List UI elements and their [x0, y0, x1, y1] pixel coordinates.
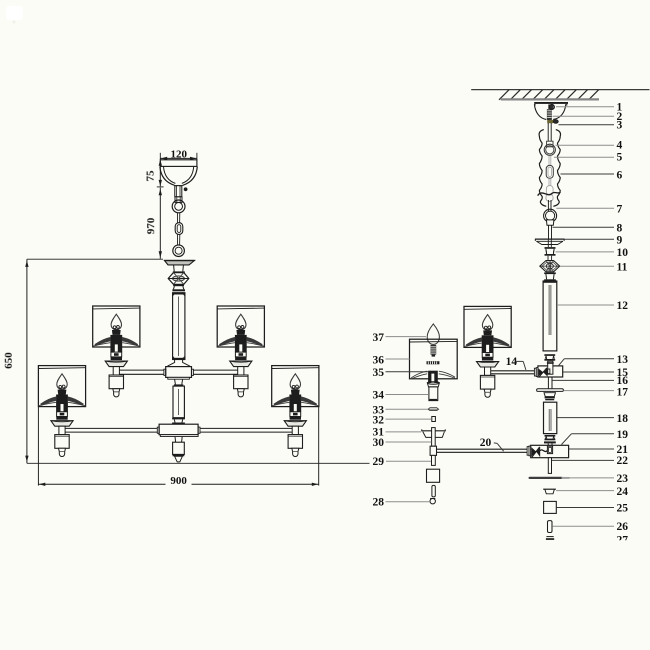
dimension 120 line	[160, 153, 197, 160]
part 10 spool	[545, 247, 556, 256]
label 9 leader	[565, 235, 623, 247]
part 11 diamond ornament	[540, 261, 560, 272]
svg-text:650: 650	[3, 352, 15, 369]
hub 13 center tube	[547, 361, 554, 374]
lower hub right boss	[198, 427, 200, 433]
part 8 hanger rod	[549, 225, 552, 239]
svg-text:23: 23	[617, 473, 629, 485]
svg-text:970: 970	[145, 217, 157, 234]
lower hub	[159, 424, 198, 436]
upper left lamp	[93, 306, 140, 397]
upper tube lower neck	[167, 360, 190, 367]
label 36 leader	[373, 354, 410, 366]
chain bottom ring	[546, 194, 553, 201]
part 20 arm	[437, 449, 531, 452]
svg-text:12: 12	[617, 300, 629, 312]
label 13 leader	[558, 354, 628, 366]
label 22 leader	[552, 455, 629, 467]
rod below spool	[548, 256, 552, 261]
column bobeche	[164, 260, 194, 265]
part 27 cap	[546, 537, 554, 540]
svg-text:20: 20	[480, 437, 492, 449]
label 6 leader	[561, 169, 623, 181]
svg-text:34: 34	[373, 390, 385, 402]
part 18 lower column tube	[544, 402, 557, 433]
label 23 leader	[569, 473, 628, 485]
part 1 mounting bar	[534, 102, 568, 106]
arm 14 end fitting	[534, 368, 537, 377]
chain oval link	[175, 223, 183, 235]
label 34 leader	[373, 390, 429, 402]
part 23 threaded rod	[530, 477, 570, 479]
part 3 hex nut	[547, 120, 558, 123]
label 28 leader	[373, 497, 430, 509]
part 32 bushing	[432, 417, 436, 422]
svg-text:19: 19	[617, 429, 629, 441]
hub 13 screw bowtie	[539, 368, 548, 377]
part 4 upper chain ring	[544, 141, 555, 155]
label 25 leader	[557, 502, 629, 514]
rod through saucer	[548, 239, 551, 247]
part 28 terminal box	[427, 469, 440, 482]
shade 36 holder bar	[427, 361, 440, 364]
part 29 arm rod lower	[432, 455, 436, 465]
lower right arm	[200, 428, 292, 432]
label 33 leader	[373, 405, 429, 417]
part 14 arm	[490, 371, 538, 374]
canopy stem	[175, 186, 182, 197]
part 12 upper column tube	[543, 281, 557, 351]
label 29 text	[370, 456, 387, 468]
label 21 leader	[569, 444, 628, 456]
ceiling top line	[471, 89, 649, 91]
part 34 socket cylinder	[429, 387, 438, 401]
label 20	[480, 437, 504, 451]
finial neck	[175, 437, 182, 443]
label 16 leader	[552, 375, 628, 387]
svg-text:75: 75	[145, 170, 157, 182]
watermark blob	[6, 6, 23, 24]
svg-text:11: 11	[617, 262, 628, 274]
chain connector a	[177, 213, 179, 223]
column collar top	[173, 265, 185, 273]
upper left arm	[119, 370, 164, 374]
dimension 970	[145, 188, 162, 259]
part 5 chain oval link	[546, 156, 553, 178]
sleeve drip cup	[427, 381, 439, 387]
part 26 cylinder	[548, 521, 553, 533]
label 4 leader	[556, 139, 623, 151]
svg-text:900: 900	[170, 475, 187, 487]
collar below tube 18	[545, 435, 556, 440]
svg-text:8: 8	[617, 222, 623, 234]
part 35 candle sleeve	[428, 371, 438, 383]
baseline extension and leader 29 line	[27, 461, 432, 463]
label 17 leader	[564, 386, 629, 398]
dimension 75	[145, 160, 164, 187]
svg-text:14: 14	[506, 356, 518, 368]
shade 36 rim curves	[411, 371, 455, 379]
column diamond finial	[168, 273, 189, 285]
label 3 leader	[559, 120, 623, 132]
label 1 leader	[556, 102, 623, 114]
canopy set screw	[184, 188, 187, 191]
upper right arm	[193, 370, 238, 374]
column lower tube	[173, 386, 184, 418]
part 22 rod	[548, 458, 551, 474]
svg-text:9: 9	[617, 235, 623, 247]
svg-text:7: 7	[617, 204, 623, 216]
chain lower partial link	[546, 178, 553, 195]
hub 19 screw bowtie	[531, 447, 540, 457]
svg-text:24: 24	[617, 486, 629, 498]
canopy bell	[160, 167, 197, 186]
lower left lamp	[38, 366, 85, 457]
dimension 650 line	[3, 259, 29, 463]
label 19 leader	[562, 429, 629, 445]
terminal pin	[432, 485, 435, 497]
ceiling hatching	[499, 90, 599, 100]
label 26 leader	[552, 521, 628, 533]
svg-text:30: 30	[373, 437, 385, 449]
hub 19 center block	[547, 446, 552, 453]
dimension 120 text	[170, 148, 187, 160]
part 31 bobeche	[421, 429, 446, 437]
upper hub left boss	[164, 369, 166, 375]
chain connector b	[177, 234, 179, 245]
svg-text:28: 28	[373, 497, 385, 509]
dimension 900 right extension	[318, 407, 320, 486]
part 19 lower arm hub	[531, 445, 569, 457]
label 15 leader	[563, 367, 628, 379]
cup below disc	[544, 393, 556, 401]
label 37 leader	[373, 332, 427, 344]
column upper tube	[172, 293, 185, 360]
svg-text:22: 22	[617, 455, 629, 467]
svg-text:5: 5	[617, 151, 623, 163]
part 13 arm hub	[538, 366, 563, 377]
part 25 square box	[544, 501, 557, 513]
part 6 decorative chain cover	[539, 130, 560, 207]
part 36 shade	[410, 339, 458, 379]
canopy screw head	[548, 104, 553, 109]
middle lamp assembly	[464, 306, 511, 397]
dimension 900 left extension	[37, 407, 39, 486]
svg-text:16: 16	[617, 375, 629, 387]
label 2 leader	[553, 111, 623, 123]
label 5 leader	[554, 151, 623, 163]
svg-text:36: 36	[373, 354, 385, 366]
hub 19 wire	[540, 450, 547, 452]
svg-text:10: 10	[617, 247, 629, 259]
rod below hub 13	[548, 377, 552, 389]
label 12 leader	[557, 300, 628, 312]
arm 20 end fitting	[527, 446, 531, 456]
ceiling bottom line	[501, 98, 599, 100]
svg-text:13: 13	[617, 354, 629, 366]
svg-text:6: 6	[617, 169, 623, 181]
label 35 leader	[373, 367, 429, 379]
svg-text:32: 32	[373, 414, 385, 426]
label 32 leader	[373, 414, 432, 426]
label 10 leader	[556, 247, 629, 259]
label 31 leader	[373, 427, 422, 439]
lower tube collar	[172, 418, 185, 425]
upper hub	[166, 367, 192, 380]
rod below cover	[548, 200, 551, 211]
ring band below collar	[544, 441, 556, 443]
lower left arm	[65, 428, 157, 432]
label 11 leader	[560, 262, 628, 274]
link below ring 7	[546, 220, 554, 225]
label 18 leader	[557, 413, 628, 425]
svg-text:37: 37	[373, 332, 385, 344]
hanger rod top	[548, 123, 551, 141]
finial body	[173, 442, 185, 456]
label 24 leader	[556, 486, 628, 498]
upper right lamp	[217, 306, 264, 397]
upper hub right boss	[192, 369, 194, 375]
dimension 900 line	[38, 475, 318, 487]
label 27 partial	[617, 534, 629, 546]
arm center rod upper	[432, 428, 436, 447]
svg-text:18: 18	[617, 413, 629, 425]
label 14	[506, 356, 526, 370]
canopy ceiling plate	[160, 160, 197, 167]
canopy dome profile	[534, 104, 565, 119]
stub above lower hub	[548, 443, 552, 445]
terminal ball	[430, 499, 435, 504]
svg-text:35: 35	[373, 367, 385, 379]
dimension 650 extension top	[27, 258, 163, 260]
svg-text:17: 17	[617, 386, 629, 398]
column collar 2	[172, 284, 185, 291]
svg-text:26: 26	[617, 521, 629, 533]
label 30 leader	[373, 437, 432, 449]
part 17 disc	[537, 389, 564, 392]
break squiggle	[538, 192, 561, 196]
svg-text:4: 4	[617, 139, 623, 151]
svg-text:3: 3	[617, 120, 623, 132]
part 37 bulb	[427, 324, 439, 357]
part 30 tee block	[430, 446, 436, 455]
collar below tube 12	[544, 354, 555, 361]
svg-text:21: 21	[617, 444, 629, 456]
neck below upper hub	[174, 379, 183, 386]
part 2 threaded nipple	[547, 105, 555, 121]
collar below diamond	[544, 272, 556, 281]
svg-text:25: 25	[617, 502, 629, 514]
lower hub left boss	[157, 427, 159, 433]
svg-text:29: 29	[373, 456, 385, 468]
part 7 chain ring	[544, 209, 557, 222]
part 33 flat ring	[428, 408, 439, 411]
part 24 cup	[543, 489, 556, 494]
label 8 leader	[553, 222, 623, 234]
chain ring 2	[173, 245, 185, 257]
finial tip	[175, 456, 183, 462]
part 9 canopy saucer	[535, 239, 565, 244]
label 7 leader	[556, 204, 622, 216]
lower right lamp	[272, 366, 319, 457]
chain top link	[175, 197, 182, 203]
chain ring 1	[172, 200, 185, 213]
